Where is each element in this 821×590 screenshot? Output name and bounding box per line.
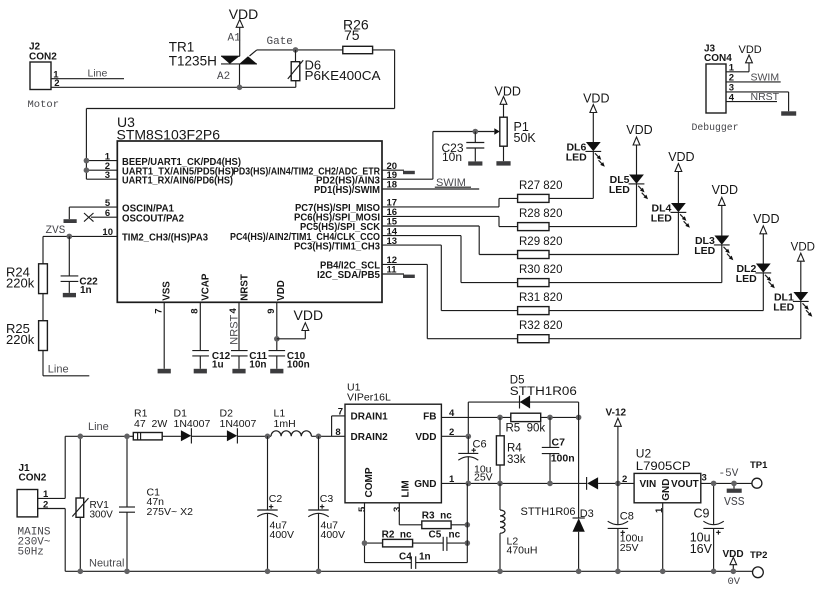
svg-text:C3: C3 (320, 493, 334, 505)
U1 pin 1 GND wire (441, 474, 586, 485)
svg-text:220k: 220k (6, 332, 35, 347)
J1 pin 1 (38, 436, 65, 500)
resistor R24 220k (6, 264, 47, 294)
svg-text:1: 1 (449, 474, 455, 485)
diode D5 STTH1R06 (468, 375, 578, 437)
wire pin19 to P1 wiper (433, 128, 500, 179)
node C5 right junction (465, 540, 471, 546)
varistor RV1 300V (72, 436, 113, 571)
svg-text:R28 820: R28 820 (519, 208, 562, 220)
capacitor C2 4u7 400V (257, 436, 294, 571)
svg-text:VDD: VDD (415, 432, 436, 443)
wire Line rail (65, 421, 133, 436)
resistor R2 nc (365, 529, 444, 547)
svg-text:NRST: NRST (751, 91, 780, 103)
node C9 top junction (711, 481, 717, 487)
svg-text:8: 8 (189, 309, 200, 314)
capacitor C9 10u 16V (690, 483, 724, 571)
capacitor C3 4u7 400V (308, 436, 345, 571)
svg-text:OSCOUT/PA2: OSCOUT/PA2 (122, 213, 185, 224)
svg-text:VDD: VDD (712, 183, 738, 197)
svg-text:VDD: VDD (723, 549, 744, 560)
svg-text:6: 6 (105, 208, 110, 219)
svg-text:D5: D5 (510, 375, 525, 387)
svg-text:-5V: -5V (719, 468, 739, 480)
wire pin to R29 (479, 226, 517, 255)
ground (pin 7) (158, 369, 171, 374)
node VDD-C6 junction (466, 434, 472, 440)
svg-text:C2: C2 (269, 493, 283, 505)
test point TP1 (750, 460, 768, 488)
svg-text:NRST: NRST (229, 314, 241, 344)
svg-text:2: 2 (622, 474, 627, 485)
diode D3 STTH1R06 (521, 506, 594, 572)
U3 pin 3 (86, 170, 233, 187)
svg-text:2: 2 (43, 499, 48, 510)
svg-text:1: 1 (654, 507, 665, 513)
svg-text:33k: 33k (507, 454, 526, 466)
U3 pin 2 (84, 161, 234, 178)
svg-text:LED: LED (736, 273, 757, 285)
U3 pin 19 (316, 170, 433, 187)
wire R1 to D1 (162, 435, 181, 437)
J1 pin 2 (38, 499, 65, 571)
wire L1 to C3/U1 (311, 416, 331, 436)
wire R30 to DL3 (549, 245, 722, 283)
LED DL3 (694, 205, 733, 260)
ground (pin 5) (64, 207, 77, 223)
svg-text:VIN: VIN (640, 479, 657, 490)
node VDD (DL1) (791, 242, 815, 262)
svg-text:50Hz: 50Hz (18, 547, 44, 559)
svg-text:UART1_RX/AIN6/PD6(HS): UART1_RX/AIN6/PD6(HS) (122, 175, 233, 186)
inductor L1 1mH (271, 408, 311, 437)
wire R32 to DL1 (549, 301, 801, 338)
svg-text:Neutral: Neutral (89, 558, 124, 570)
J3 pin 4 NRST (726, 91, 780, 103)
node C8 bottom (615, 569, 621, 575)
wire gate to R26 (257, 49, 343, 51)
diode output (to U2) (587, 477, 635, 490)
svg-text:10n: 10n (442, 150, 462, 164)
svg-text:LED: LED (773, 301, 794, 313)
U1 pin 5 COMP stub (357, 503, 368, 563)
svg-text:C8: C8 (620, 510, 634, 522)
node V-12 junction (615, 481, 621, 487)
svg-text:75: 75 (344, 27, 360, 43)
node R2 left junction (362, 540, 368, 546)
wire R29 to DL4 (549, 212, 678, 254)
svg-text:R30 820: R30 820 (519, 264, 562, 276)
svg-text:1N4007: 1N4007 (220, 418, 257, 430)
svg-text:16V: 16V (690, 542, 713, 556)
resistor R32 820 (518, 320, 563, 343)
svg-text:1n: 1n (419, 551, 431, 562)
svg-text:C7: C7 (552, 437, 566, 449)
svg-text:V-12: V-12 (606, 407, 627, 418)
svg-text:10: 10 (102, 227, 113, 238)
svg-text:VDD: VDD (583, 92, 609, 106)
connector J1 CON2 (17, 463, 51, 559)
U1 pin 4 FB wire (441, 408, 510, 419)
node C23 junction (473, 129, 479, 135)
svg-text:VDD: VDD (229, 6, 259, 22)
svg-text:COMP: COMP (364, 467, 375, 497)
U3 pin 4 NRST (228, 274, 250, 350)
svg-text:SWIM: SWIM (751, 72, 780, 84)
wire D5 down past FB to GND (578, 402, 580, 518)
svg-text:3: 3 (702, 473, 707, 484)
svg-text:25V: 25V (474, 472, 493, 484)
U1 pin 2 VDD wire (441, 427, 468, 438)
svg-text:18: 18 (387, 180, 398, 191)
svg-text:10n: 10n (249, 360, 266, 371)
svg-text:400V: 400V (321, 529, 346, 541)
J3 pin 1 to VDD (726, 63, 749, 74)
svg-text:R29 820: R29 820 (519, 236, 562, 248)
wire R28 to DL5 (549, 184, 637, 227)
svg-text:13: 13 (387, 236, 398, 247)
svg-text:100n: 100n (551, 452, 575, 464)
node L2 bottom (497, 569, 503, 575)
diode D2 1N4007 (220, 408, 257, 444)
svg-text:2: 2 (449, 427, 454, 438)
svg-text:3: 3 (392, 507, 403, 512)
U3 pin 1 (84, 151, 241, 168)
wire D2 to L1 (237, 435, 271, 437)
resistor R4 33k (496, 417, 525, 483)
svg-text:Line: Line (88, 421, 109, 433)
svg-text:VIPer16L: VIPer16L (347, 392, 391, 404)
svg-text:9: 9 (266, 309, 277, 314)
node VSS junction (731, 481, 737, 487)
svg-text:DRAIN1: DRAIN1 (351, 411, 389, 422)
node ZVS junction (67, 234, 73, 240)
node RV1 bottom (78, 569, 84, 575)
resistor R26 75 (343, 16, 373, 53)
svg-text:ZVS: ZVS (46, 225, 66, 237)
svg-text:STTH1R06: STTH1R06 (521, 506, 576, 518)
node VDD (U3 supply) (277, 307, 323, 339)
svg-text:4: 4 (228, 308, 239, 314)
U3 pin 9 VDD (266, 280, 287, 350)
node VDD stem junction (731, 569, 737, 575)
svg-text:I2C_SDA/PB5: I2C_SDA/PB5 (317, 270, 381, 281)
node VDD pin9 junction (274, 336, 280, 342)
svg-text:470uH: 470uH (507, 544, 538, 556)
resistor R5 90k (506, 413, 579, 434)
wire pin to R30 (461, 236, 518, 283)
resistor R28 820 (518, 208, 563, 231)
node V-12 power symbol (606, 407, 627, 483)
svg-text:DRAIN2: DRAIN2 (351, 432, 389, 443)
svg-text:FB: FB (423, 411, 436, 422)
LED DL2 (736, 234, 775, 288)
svg-text:R31 820: R31 820 (519, 292, 562, 304)
svg-text:LED: LED (609, 184, 630, 196)
U3 pin 6 OSCOUT with no-connect X (84, 208, 185, 225)
TVS diode D6 P6KE400CA (288, 50, 381, 87)
svg-text:C6: C6 (473, 439, 487, 451)
resistor R31 820 (518, 292, 563, 315)
svg-text:VDD: VDD (753, 212, 779, 226)
svg-text:VDD: VDD (495, 84, 521, 98)
capacitor C5 nc (429, 529, 468, 551)
U3 pin 11 with ground (317, 265, 415, 282)
svg-text:100n: 100n (287, 360, 310, 371)
MCU U3 STM8S103F2P6 body (117, 114, 383, 302)
wire R26 right down to U3 top feed (86, 50, 394, 179)
svg-text:VDD: VDD (668, 150, 694, 164)
node VDD (P1) (495, 84, 521, 104)
svg-text:Gate: Gate (267, 36, 293, 48)
svg-text:R5 90k: R5 90k (506, 422, 546, 434)
node R3 right junction (465, 522, 471, 528)
ground (C12) (194, 369, 207, 374)
ground (C23) (468, 161, 482, 165)
capacitor C8 100u 25V (608, 483, 644, 571)
svg-text:PD1(HS)/SWIM: PD1(HS)/SWIM (314, 185, 380, 196)
node D5 right junction (576, 415, 582, 421)
wire R25 to Line stub (43, 351, 89, 376)
svg-text:A2: A2 (217, 71, 230, 83)
svg-text:1u: 1u (212, 360, 224, 371)
node C7 top junction (547, 415, 553, 421)
node VDD (DL5) (626, 123, 652, 145)
resistor R3 nc (399, 510, 467, 528)
svg-text:400V: 400V (270, 529, 295, 541)
node C1 bottom (124, 569, 130, 575)
U3 pin 13 (294, 236, 441, 253)
svg-text:LED: LED (651, 212, 672, 224)
U1 pin 7 DRAIN1 (332, 407, 345, 418)
J3 pin 2 SWIM (726, 72, 781, 84)
wire pin to R27 (499, 198, 518, 207)
wire R31 to DL2 (549, 273, 763, 311)
capacitor C6 10u 25V (458, 436, 492, 483)
wire R24 to R25 (42, 294, 44, 321)
U3 pin 17 (295, 198, 499, 215)
capacitor C10 100n (269, 351, 310, 371)
capacitor C4 1n (365, 551, 468, 569)
test point TP2 (750, 550, 767, 578)
pin 1 J2 wire (Line net) (51, 68, 124, 81)
wire pin to R31 (441, 245, 517, 311)
U3 pin 20 with ground (233, 161, 415, 178)
svg-text:P6KE400CA: P6KE400CA (305, 68, 381, 83)
svg-text:VDD: VDD (626, 123, 652, 137)
svg-text:CON2: CON2 (19, 473, 47, 484)
J3 pin 3 to ground (726, 83, 789, 112)
svg-text:VSS: VSS (724, 496, 745, 509)
node VDD (triac anode) (229, 6, 259, 56)
svg-text:1n: 1n (80, 285, 92, 296)
svg-text:R4: R4 (507, 443, 522, 455)
svg-text:L7905CP: L7905CP (636, 459, 691, 473)
IC U2 L7905CP body (634, 447, 701, 503)
svg-text:0V: 0V (728, 576, 741, 588)
capacitor C23 10n (442, 132, 485, 165)
svg-text:PC3(HS)/TIM1_CH3: PC3(HS)/TIM1_CH3 (294, 241, 381, 252)
node C9 bottom (711, 569, 717, 575)
svg-text:LED: LED (566, 151, 587, 163)
svg-text:T1235H: T1235H (169, 53, 217, 68)
svg-text:C4: C4 (399, 551, 412, 562)
resistor R29 820 (518, 236, 563, 259)
capacitor C22 1n (61, 236, 99, 296)
node VDD (0V rail) (723, 549, 744, 588)
U3 pin 10 TIM2_CH3 (ZVS net) (43, 227, 209, 244)
node C2 junction (265, 434, 271, 440)
capacitor C12 1u (192, 351, 230, 371)
svg-text:nc: nc (449, 529, 461, 540)
svg-text:LIM: LIM (400, 480, 411, 497)
svg-text:5: 5 (357, 506, 368, 512)
svg-text:CON2: CON2 (29, 52, 57, 63)
ground (C10) (270, 369, 283, 374)
svg-text:R32 820: R32 820 (519, 320, 562, 332)
U3 pin 14 (230, 226, 461, 243)
node C3 junction (316, 434, 322, 440)
svg-text:R3 nc: R3 nc (422, 510, 452, 521)
node VSS (-5V bar) (719, 468, 745, 509)
node R5-R4 junction (497, 415, 503, 421)
svg-text:VDD: VDD (276, 280, 287, 301)
U3 pin 8 VCAP (189, 273, 211, 350)
node VDD (DL4) (668, 150, 694, 172)
svg-text:220k: 220k (6, 275, 35, 290)
diode D1 1N4007 (174, 408, 211, 444)
node C1 top (124, 434, 130, 440)
svg-text:1mH: 1mH (274, 418, 296, 430)
capacitor C1 47n 275V~ X2 (119, 436, 193, 571)
IC U1 VIPer16L body (345, 382, 441, 503)
LED DL1 (773, 261, 812, 317)
LED DL6 (566, 113, 605, 167)
ground (C11) (232, 369, 245, 374)
wire D1 to D2 (191, 435, 227, 437)
svg-text:7: 7 (153, 309, 164, 314)
resistor R30 820 (518, 264, 563, 287)
ground (C22) (63, 293, 76, 297)
svg-text:Motor: Motor (28, 99, 60, 111)
svg-text:7: 7 (338, 407, 343, 418)
wire pin to R32 (427, 264, 517, 338)
node D3 bottom (576, 569, 582, 575)
capacitor C11 10n (231, 351, 268, 371)
svg-text:Line: Line (88, 68, 108, 80)
connector J2 CON2 (28, 42, 60, 111)
svg-text:1N4007: 1N4007 (174, 418, 211, 430)
svg-text:TR1: TR1 (169, 40, 195, 55)
node C7-GND junction (547, 481, 553, 487)
U2 pin 3 wire (701, 473, 752, 484)
resistor R27 820 (518, 180, 563, 203)
svg-text:25V: 25V (620, 542, 639, 554)
pin 2 J2 wire (A2 net) (51, 78, 296, 89)
U2 pin 1 GND stub (654, 503, 665, 572)
svg-text:STM8S103F2P6: STM8S103F2P6 (117, 127, 221, 143)
node C2 bottom (265, 569, 271, 575)
ground (J3) (781, 111, 796, 115)
node C6-GND junction (466, 481, 472, 487)
node C3 bottom (316, 569, 322, 575)
node VDD (DL2) (753, 212, 779, 234)
wire Neutral rail (65, 558, 752, 572)
svg-text:TP2: TP2 (750, 550, 767, 561)
svg-text:STTH1R06: STTH1R06 (510, 386, 577, 398)
wire ZVS to R24 (42, 236, 44, 263)
svg-text:VCAP: VCAP (201, 273, 212, 301)
node VDD (J3) (739, 44, 762, 63)
svg-text:4: 4 (729, 92, 735, 103)
svg-text:NRST: NRST (239, 274, 250, 301)
svg-text:3: 3 (105, 170, 110, 181)
inductor L2 470uH (500, 483, 537, 571)
svg-text:275V~ X2: 275V~ X2 (147, 506, 194, 518)
svg-text:VDD: VDD (294, 307, 324, 323)
resistor R25 220k (6, 321, 47, 351)
wire pin to R28 (499, 216, 518, 226)
U3 pin 15 (300, 217, 479, 234)
svg-text:VDD: VDD (739, 44, 762, 56)
node A2-triac junction (237, 85, 243, 91)
svg-text:TP1: TP1 (750, 460, 768, 471)
node gate junction (293, 47, 299, 53)
LED DL5 (609, 145, 648, 199)
svg-text:300V: 300V (90, 510, 114, 521)
svg-text:50K: 50K (514, 131, 537, 145)
svg-text:TIM2_CH3/(HS)PA3: TIM2_CH3/(HS)PA3 (122, 233, 209, 244)
svg-text:VOUT: VOUT (671, 479, 699, 490)
potentiometer P1 50K (500, 105, 537, 162)
svg-text:VDD: VDD (791, 242, 815, 254)
U1 pin 3 LIM stub (392, 503, 403, 525)
node VDD (DL3) (712, 183, 738, 205)
wire R27 to DL6 (549, 151, 593, 198)
svg-text:2: 2 (54, 78, 59, 89)
svg-text:C9: C9 (694, 507, 710, 521)
U3 pin 12 (320, 255, 427, 272)
svg-text:4: 4 (449, 408, 455, 419)
svg-text:47 2W: 47 2W (134, 418, 167, 430)
svg-text:GND: GND (414, 479, 436, 490)
svg-text:Line: Line (48, 363, 69, 375)
svg-text:C5: C5 (429, 529, 442, 540)
capacitor C7 100n (542, 417, 575, 483)
svg-text:A1: A1 (228, 33, 242, 45)
svg-text:LED: LED (694, 245, 715, 257)
U3 pin 5 OSCIN (69, 198, 174, 215)
svg-text:Debugger: Debugger (692, 122, 739, 133)
connector J3 CON4 (692, 43, 739, 133)
U3 pin 16 (294, 207, 499, 224)
node R4-L2 GND junction (497, 481, 503, 487)
ground (P1) (496, 161, 510, 165)
triac TR1 T1235H (169, 40, 257, 88)
U1 pin 8 DRAIN2 (332, 427, 345, 438)
node RV1 top (78, 434, 84, 440)
LED DL4 (651, 172, 690, 228)
svg-text:VSS: VSS (162, 281, 173, 301)
U3 pin 7 VSS (153, 281, 172, 369)
node VDD (DL6) (583, 92, 609, 113)
wire C6-R3-C5-C4 vertical (466, 483, 468, 562)
svg-text:R27 820: R27 820 (519, 180, 562, 192)
svg-text:11: 11 (387, 265, 398, 276)
svg-text:D3: D3 (580, 508, 594, 520)
svg-text:8: 8 (335, 427, 340, 438)
